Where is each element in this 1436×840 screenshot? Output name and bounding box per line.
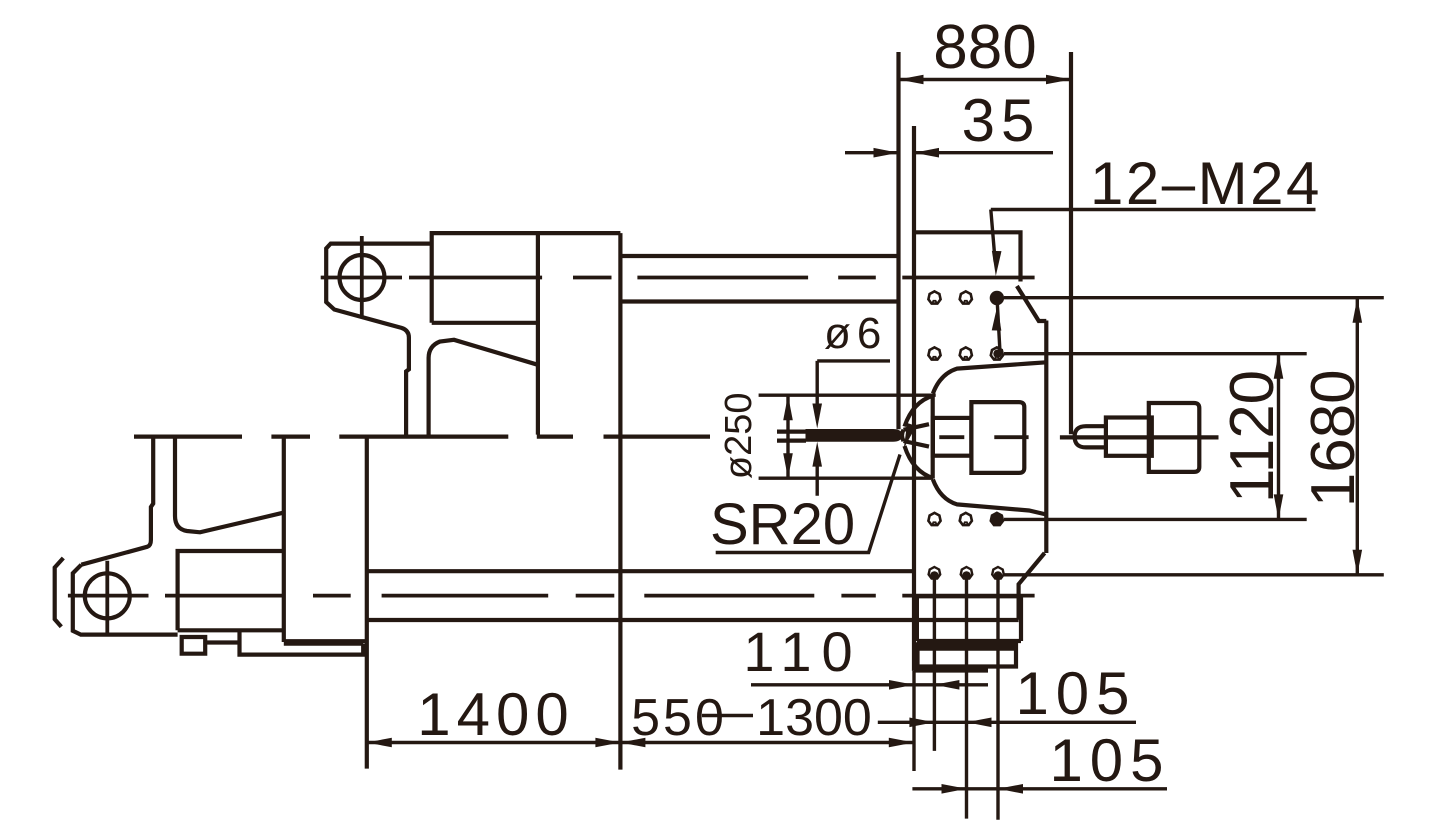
dimension 550-1300 mold height range: [620, 689, 913, 747]
label 12-M24 with leader: [991, 150, 1322, 352]
detached nozzle centerline: [1060, 435, 1219, 439]
nozzle front piece: [933, 418, 972, 456]
dimension 110: [743, 620, 988, 690]
label SR20 with leader: [710, 423, 916, 557]
svg-text:SR20: SR20: [710, 492, 855, 557]
locating ring recess (bell): [933, 362, 1047, 514]
svg-text:1680: 1680: [1299, 369, 1368, 507]
mold mounting holes row 2: [928, 347, 940, 359]
machine main horizontal centerline: [134, 435, 710, 439]
lower cylinder foot pad: [240, 630, 367, 654]
leader dot on row1 hole 3: [990, 291, 1004, 305]
moving platen column / 1400+mold extension vertical: [618, 233, 622, 770]
dimension 1120: [1004, 354, 1307, 520]
injection screw channel: [777, 432, 806, 441]
upper clevis crosshair vertical: [360, 236, 364, 317]
anchor bolts on lower tie bar: [929, 567, 941, 580]
880 right extension / nozzle retract line: [1069, 52, 1073, 434]
lower cylinder small foot: [182, 637, 240, 654]
upper bracket arm: [429, 340, 538, 435]
detached nozzle neck: [1106, 418, 1152, 456]
detached nozzle tip bullet: [1075, 426, 1105, 447]
lower tie bar: [367, 571, 914, 620]
fixed platen right face / 35 extension: [912, 126, 916, 671]
mold mounting holes row 1: [928, 291, 940, 303]
nozzle tip cone: [902, 424, 929, 446]
dimension 1680: [1004, 298, 1384, 575]
dimension 880: [899, 13, 1072, 84]
mold mounting holes row 3: [928, 513, 940, 525]
dimension 1400: [367, 681, 621, 748]
svg-text:550: 550: [631, 689, 727, 747]
svg-text:ø6: ø6: [824, 309, 887, 358]
svg-text:ø250: ø250: [718, 392, 760, 479]
upper clamping cylinder block: [432, 233, 621, 435]
dimension 105 first: [878, 660, 1137, 727]
svg-text:110: 110: [743, 620, 862, 683]
lower clevis pin circle: [85, 573, 130, 618]
injection axis centerline dashes at platen: [939, 435, 1028, 439]
svg-text:105: 105: [1015, 660, 1136, 727]
dimension diameter 250: [718, 392, 936, 479]
fixed platen left face / 880 extension: [896, 52, 900, 429]
lower bracket arm: [175, 437, 284, 532]
platen support pedestal: [917, 596, 1021, 641]
sprue seat arcs: [905, 396, 934, 479]
svg-text:105: 105: [1049, 727, 1170, 794]
molten channel thick bar: [806, 429, 904, 442]
upper tie bar: [620, 256, 898, 302]
svg-text:12–M24: 12–M24: [1090, 150, 1322, 217]
lower piston-rod end arc: [55, 558, 64, 627]
upper piston-rod clevis bracket: [326, 244, 432, 435]
svg-text:35: 35: [962, 87, 1041, 154]
lower clamp cylinder centerline: [68, 594, 1035, 598]
detached nozzle body: [1149, 403, 1200, 472]
lower clevis bracket: [73, 437, 178, 635]
svg-text:1400: 1400: [417, 681, 574, 748]
dimension diameter 6: [812, 309, 890, 496]
mold plate outline: [914, 232, 1046, 620]
lower clevis crosshair vertical: [105, 561, 109, 636]
upper clevis pin circle: [340, 255, 385, 300]
dimension 35: [845, 87, 1053, 158]
svg-text:880: 880: [933, 13, 1036, 82]
lower moving column / tie-bar end vertical: [365, 437, 369, 769]
dimension 105 second: [912, 727, 1170, 794]
upper clamp cylinder centerline: [321, 276, 1035, 280]
lower clamping cylinder block: [178, 437, 284, 642]
platen foot pad: [914, 644, 1016, 670]
anchor bolt extension verticals: [914, 577, 998, 820]
svg-text:1120: 1120: [1218, 370, 1287, 503]
nozzle body: [971, 402, 1024, 473]
svg-text:1300: 1300: [756, 689, 872, 747]
